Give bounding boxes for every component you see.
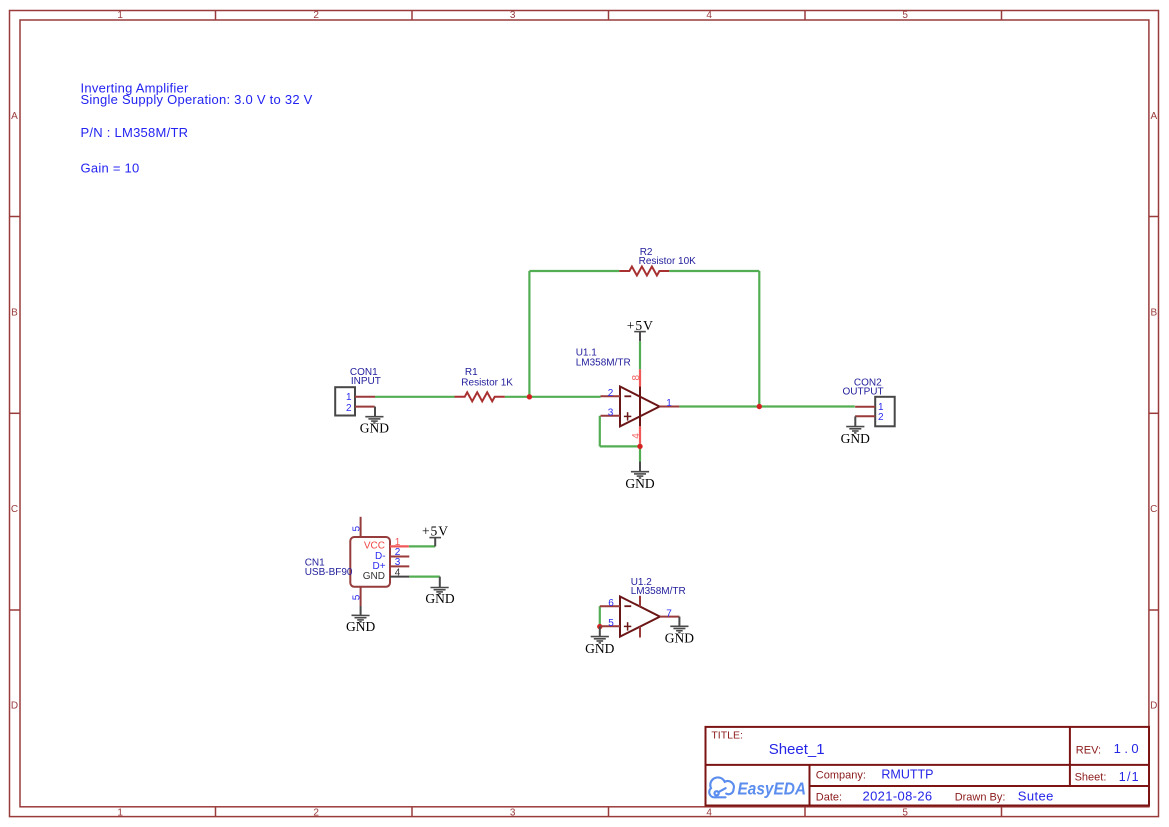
svg-text:D: D [11,701,18,712]
U1.1 pin 8 stub [639,369,641,387]
wire U1.1 pin3 loop vertical [599,416,601,447]
EasyEDA logo [709,777,806,798]
svg-text:+5V: +5V [422,523,449,538]
ground (CON2) [841,416,870,445]
ground bar 2 (CON2) [849,428,861,430]
svg-text:3: 3 [608,408,614,419]
op-amp U1.2 [600,577,686,637]
svg-text:Sheet:: Sheet: [1075,772,1107,784]
resistor R2 body [619,267,669,276]
ground bar 1 (CN1 bottom) [352,614,370,616]
connector CN1 body [350,537,390,587]
+5V flag lead (U1.1) [639,332,641,342]
ground bar 4 (U1.2 left) [599,642,601,644]
connector CON1 body [335,387,355,415]
ground bar 4 (CON1) [373,422,375,424]
svg-text:LM358M/TR: LM358M/TR [576,357,631,368]
CON1 pin 1 stub [355,396,375,398]
ground lead (CON1) [374,407,376,417]
op-amp U1.2 triangle [620,597,660,637]
ground bar 1 (CN1 pin4) [431,587,449,589]
U1.1 non-inverting plus marker (v) [627,412,629,420]
svg-text:1: 1 [346,392,352,403]
svg-text:Sheet_1: Sheet_1 [769,741,825,758]
svg-text:2: 2 [878,412,884,423]
svg-text:OUTPUT: OUTPUT [843,386,884,397]
svg-text:GND: GND [346,619,375,634]
CN1 pin 3 stub [390,565,409,567]
svg-text:A: A [1150,111,1157,122]
ground (CN1 bottom) [346,606,375,634]
CON1 pin 2 stub [355,406,375,408]
U1.2 non-inverting plus marker (v) [627,622,629,630]
ground bar 4 (CN1 bottom) [359,621,361,623]
U1.1 pin 2 stub [601,395,621,397]
svg-text:1.0: 1.0 [1114,741,1143,756]
svg-text:Single Supply Operation: 3.0 V: Single Supply Operation: 3.0 V to 32 V [81,92,313,107]
svg-text:Resistor 1K: Resistor 1K [461,377,513,388]
svg-text:Resistor 10K: Resistor 10K [639,256,697,267]
svg-text:2021-08-26: 2021-08-26 [863,788,933,803]
ground bar 1 (CON2) [846,426,864,428]
svg-text:5: 5 [351,594,362,600]
svg-text:GND: GND [360,420,389,435]
U1.1 pin 1 stub [660,406,680,408]
ground lead (CN1 pin4) [439,577,441,588]
ground bar 4 (CN1 pin4) [438,593,440,595]
wire U1.2 pin6 to pin5 [599,606,601,626]
svg-text:GND: GND [425,591,454,606]
junction at U1.1 pin4 node [637,444,642,449]
wire feedback top left to R2 [529,270,619,272]
ground bar 3 (CON1) [371,420,378,422]
svg-text:2: 2 [346,403,352,414]
ground (CN1 pin4) [425,577,454,606]
junction at R1 output node [527,394,532,399]
svg-text:1: 1 [117,807,123,818]
junction dots [527,394,762,629]
resistor R2 [619,247,696,276]
ground (U1.1) [625,462,654,491]
ground bar 2 (U1.2 left) [594,638,606,640]
svg-text:GND: GND [363,571,385,582]
ground (CON1) [360,407,389,436]
wire [375,271,855,627]
resistor R1 [455,367,514,401]
svg-text:8: 8 [631,374,642,380]
svg-text:1: 1 [666,398,672,409]
wire CN1 VCC to +5V [409,545,435,547]
ground bar 2 (CON1) [368,418,380,420]
svg-text:INPUT: INPUT [351,376,381,387]
CON2 pin 2 stub [855,415,875,417]
svg-text:+5V: +5V [627,318,654,333]
U1.1 inverting input minus marker [624,395,631,397]
U1.1 power pin line through body [639,387,641,427]
ground bar 1 (U1.2 pin7) [670,625,688,627]
ground bar 3 (CN1 pin4) [436,591,443,593]
svg-text:2: 2 [313,807,319,818]
svg-text:GND: GND [841,431,870,446]
CN1 top pin 5 stub [360,517,362,537]
ground bar 4 (U1.2 pin7) [678,632,680,634]
+5V flag lead (CN1) [434,538,436,547]
svg-text:B: B [11,308,18,319]
power flag +5V (CN1) [422,523,449,546]
svg-text:TITLE:: TITLE: [711,729,743,741]
ground bar 4 (CON2) [854,432,856,434]
wire R2 to feedback right [669,270,759,272]
svg-text:VCC: VCC [364,540,385,551]
op-amp U1.1 triangle [620,387,660,427]
U1.2 bottom power stub [639,627,641,638]
svg-text:Company:: Company: [816,769,866,781]
svg-text:5: 5 [351,525,362,531]
ground bar 4 (U1.1) [639,477,641,479]
CON2 pin 1 stub [855,406,875,408]
wire U1.1 pin3 loop horizontal [600,445,640,447]
ground lead (CN1 bottom) [360,606,362,615]
ground bar 1 (U1.2 left) [591,636,609,638]
CN1 pin 2 stub [390,556,409,558]
U1.1 pin 4 stub [639,426,641,444]
ground bar 3 (U1.1) [637,475,644,477]
svg-text:GND: GND [625,476,654,491]
svg-text:EasyEDA: EasyEDA [738,779,807,799]
svg-text:D: D [1150,701,1157,712]
connector CON2 body [875,397,895,427]
svg-text:USB-BF90: USB-BF90 [305,567,353,578]
svg-text:GND: GND [665,631,694,646]
svg-text:P/N : LM358M/TR: P/N : LM358M/TR [81,125,189,140]
svg-text:5: 5 [608,618,614,629]
CN1 pin 1 stub [390,545,409,547]
U1.2 pin 5 stub [600,625,620,627]
ground bar 1 (U1.1) [631,471,649,473]
wire CN1 GND to ground [409,575,440,577]
ground lead (U1.2 left) [599,627,601,637]
connector CON1 [335,367,381,415]
svg-text:Date:: Date: [816,791,842,803]
junction at U1.2 pin5 node [597,624,602,629]
title block [706,727,1150,806]
U1.2 non-inverting plus marker (h) [624,625,631,627]
svg-text:R1: R1 [465,367,478,378]
U1.1 non-inverting plus marker (h) [624,415,631,417]
U1.2 inverting input minus marker [624,605,631,607]
svg-text:Drawn By:: Drawn By: [955,791,1006,803]
+5V flag bar (CN1) [429,537,441,539]
svg-text:C: C [11,504,18,515]
op-amp U1.1 [576,348,680,444]
connector CN1 USB-BF90 [305,517,410,606]
svg-text:7: 7 [666,608,672,619]
U1.2 top power stub [639,596,641,607]
ground (U1.2 left) [585,627,614,656]
wire U1.1 output to CON2 [679,405,854,407]
svg-text:3: 3 [510,807,516,818]
ground lead (U1.2 pin7) [678,617,680,627]
junction at U1.1 output node [757,404,762,409]
svg-text:4: 4 [631,433,642,439]
svg-text:REV:: REV: [1076,744,1101,756]
+5V flag bar (U1.1) [634,331,646,333]
ground bar 3 (CN1 bottom) [357,619,364,621]
svg-text:1/1: 1/1 [1119,770,1140,784]
svg-text:2: 2 [313,10,319,21]
annotation text block [81,80,313,175]
svg-text:4: 4 [706,10,712,21]
power flag +5V (U1.1) [627,318,654,341]
connector CON2 [843,377,895,426]
wire feedback left vertical [528,271,530,397]
ground bar 2 (U1.2 pin7) [673,628,685,630]
svg-text:1: 1 [117,10,123,21]
svg-text:5: 5 [902,10,908,21]
svg-text:GND: GND [585,641,614,656]
svg-text:4: 4 [395,567,401,578]
wire feedback right vertical [758,271,760,407]
U1.1 pin 3 stub [601,415,621,417]
ground bar 2 (U1.1) [634,473,646,475]
ground bar 2 (CN1 bottom) [355,617,367,619]
svg-text:6: 6 [608,598,614,609]
svg-text:RMUTTP: RMUTTP [881,767,933,781]
ground lead (CON2) [854,416,856,426]
ground lead (U1.1) [639,462,641,472]
ground bar 3 (U1.2 left) [597,640,604,642]
U1.2 pin 7 stub [660,616,680,618]
ground (U1.2 pin7) [665,617,694,646]
wire +5V to U1.1 pin8 [639,341,641,369]
CN1 bottom pin 5 stub [360,587,362,606]
svg-text:C: C [1150,504,1157,515]
svg-text:Sutee: Sutee [1018,788,1054,803]
svg-text:B: B [1150,308,1157,319]
resistor R1 body [455,392,505,401]
wire R1 to U1.1 pin2 [505,396,601,398]
CN1 pin 4 stub [390,576,409,578]
wire CON1.1 to R1 [375,396,455,398]
ground bar 2 (CN1 pin4) [434,589,446,591]
U1.2 pin 6 stub [600,605,620,607]
svg-text:5: 5 [902,807,908,818]
wire U1.1 pin4 to ground [639,444,641,462]
ground bar 1 (CON1) [365,416,383,418]
ground bar 3 (CON2) [852,430,859,432]
svg-text:A: A [11,111,18,122]
svg-text:3: 3 [510,10,516,21]
svg-text:Gain = 10: Gain = 10 [81,161,140,176]
svg-text:2: 2 [608,388,614,399]
svg-text:4: 4 [706,807,712,818]
svg-text:LM358M/TR: LM358M/TR [631,586,686,597]
ground bar 3 (U1.2 pin7) [676,630,683,632]
